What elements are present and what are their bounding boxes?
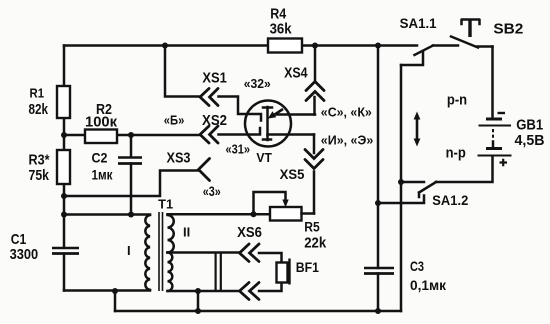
label C2: [92, 149, 114, 182]
svg-text:36k: 36k: [270, 20, 293, 37]
svg-text:XS3: XS3: [167, 151, 191, 167]
label C3: [410, 259, 446, 293]
wire winding II bottom: [168, 290, 240, 293]
connector XS1: [200, 89, 218, 106]
svg-text:R3*: R3*: [29, 152, 50, 169]
junction R5 wiper node: [251, 211, 257, 217]
junction right bus on top bus: [375, 43, 381, 49]
resistor R5: [270, 207, 302, 221]
label R5: [304, 220, 327, 252]
wire left bus: [63, 46, 66, 291]
label winding I: [127, 243, 131, 258]
svg-text:0,1мк: 0,1мк: [410, 278, 446, 293]
capacitor C2: [118, 158, 142, 164]
label 3: [203, 184, 221, 199]
svg-text:T1: T1: [158, 197, 173, 212]
label n-p: [446, 145, 466, 162]
push button SB2: [451, 20, 493, 48]
svg-text:«31»: «31»: [226, 142, 251, 157]
svg-text:XS5: XS5: [280, 167, 305, 182]
junction C3 bottom on bottom bus: [375, 308, 381, 314]
transistor VT: [245, 101, 291, 147]
label XS1: [202, 71, 227, 87]
svg-text:I: I: [127, 243, 131, 258]
svg-text:SA1.1: SA1.1: [400, 16, 437, 31]
svg-text:«3»: «3»: [203, 184, 221, 199]
svg-text:p-n: p-n: [447, 91, 467, 108]
wire base node horizontal: [64, 134, 200, 137]
capacitor C1: [52, 248, 79, 254]
battery plus sign: [500, 159, 508, 166]
wire SA1.1 to SB2: [433, 44, 458, 47]
wire bottom left horizontal: [64, 289, 150, 292]
junction XS1 branch on top bus: [162, 43, 168, 49]
wire SB2 to battery: [491, 47, 494, 119]
label SA1.1: [400, 16, 437, 31]
wire drop winding II bottom to bus: [197, 291, 200, 311]
svg-text:22k: 22k: [304, 235, 327, 252]
svg-text:82k: 82k: [29, 101, 49, 118]
connector XS3: [199, 159, 210, 181]
label BF1: [296, 260, 320, 275]
wire collector lead: [276, 113, 315, 116]
headphone BF1: [277, 259, 290, 285]
svg-text:R5: R5: [304, 220, 320, 235]
wire drop to bottom bus: [114, 291, 117, 311]
svg-text:C2: C2: [92, 149, 108, 165]
svg-text:100к: 100к: [85, 114, 117, 131]
label VT: [256, 151, 272, 165]
svg-text:SA1.2: SA1.2: [432, 193, 468, 208]
wire XS6 to BF1 top: [259, 253, 282, 263]
resistor R2: [85, 130, 117, 144]
junction R2-C2 base node: [128, 132, 134, 138]
label 32: [244, 76, 271, 91]
svg-text:BF1: BF1: [296, 260, 320, 275]
junction SA1.2 throw on right bus: [375, 200, 381, 206]
svg-text:XS2: XS2: [202, 113, 227, 129]
label GB1: [515, 118, 545, 149]
label R4: [270, 6, 293, 38]
junction bottom-left drop: [112, 288, 118, 294]
wire XS1 to transistor gate: [219, 97, 262, 121]
capacitor plates at XS6: [216, 253, 221, 292]
wire y214 bus to winding I: [64, 213, 150, 216]
junction on bottom bus at x198: [195, 308, 201, 314]
label I E: [321, 133, 374, 148]
svg-text:XS4: XS4: [284, 65, 308, 81]
label C K: [321, 105, 372, 120]
wire XS1 path: [165, 46, 200, 97]
wire winding II top to R5: [168, 213, 271, 216]
gang arrow: [414, 112, 421, 147]
svg-text:«32»: «32»: [244, 76, 271, 91]
wire R5 right to XS5: [302, 212, 315, 215]
svg-text:XS6: XS6: [237, 225, 262, 241]
svg-text:4,5В: 4,5В: [515, 133, 545, 149]
label R2: [85, 101, 117, 131]
svg-text:C1: C1: [11, 231, 26, 248]
R5 wiper: [254, 192, 289, 214]
transformer T1 winding I: [145, 215, 150, 290]
junction XS3 branch on left bus: [61, 193, 67, 199]
svg-text:«И», «Э»: «И», «Э»: [321, 133, 374, 148]
svg-text:75k: 75k: [29, 167, 50, 184]
label SA1.2: [432, 193, 468, 208]
transformer T1 winding II lower: [168, 253, 173, 292]
resistor R4: [268, 39, 302, 53]
svg-text:«Б»: «Б»: [164, 112, 185, 127]
label p-n: [447, 91, 467, 108]
wire bottom bus: [115, 310, 401, 313]
svg-text:VT: VT: [256, 151, 272, 165]
transformer T1 winding II upper: [168, 215, 174, 253]
junction winding I top on left bus: [61, 212, 67, 218]
svg-text:SB2: SB2: [493, 21, 523, 38]
svg-text:n-p: n-p: [446, 145, 466, 162]
connector XS6 lower: [240, 283, 260, 300]
svg-text:XS1: XS1: [202, 71, 227, 87]
label T1: [158, 197, 173, 212]
transformer T1 core: [159, 212, 163, 291]
svg-text:«С», «К»: «С», «К»: [321, 105, 372, 120]
wire XS2 to transistor: [219, 128, 261, 135]
label R1: [29, 86, 49, 118]
junction C2 bottom node: [128, 212, 134, 218]
battery GB1: [478, 119, 512, 156]
capacitor C3: [364, 268, 394, 274]
battery minus sign: [498, 112, 506, 114]
label XS6: [237, 225, 262, 241]
connector XS6 upper: [240, 244, 260, 262]
label XS3: [167, 151, 191, 167]
label XS2: [202, 113, 227, 129]
svg-text:R1: R1: [30, 86, 45, 101]
label R3: [29, 152, 50, 185]
junction SA1.2 pole on x401 bus: [398, 179, 404, 185]
label 31: [226, 142, 251, 157]
junction XS4 branch on top bus: [312, 43, 318, 49]
svg-text:3300: 3300: [10, 247, 38, 263]
svg-text:1мк: 1мк: [92, 166, 114, 182]
svg-text:II: II: [183, 225, 190, 240]
label XS4: [284, 65, 308, 81]
resistor R1: [57, 86, 70, 118]
wire winding II tap: [168, 251, 240, 254]
switch SA1.2: [378, 182, 436, 203]
wire BF1 bottom loop: [259, 283, 282, 292]
resistor R3: [57, 150, 70, 184]
wire battery to SA1.2: [436, 157, 493, 183]
connector XS4: [306, 46, 324, 115]
wire C2 branch: [130, 135, 133, 215]
label SB2: [493, 21, 523, 38]
wire right bus x378: [377, 46, 380, 312]
label C1: [10, 231, 38, 263]
svg-text:GB1: GB1: [516, 118, 543, 134]
wire emitter lead: [268, 133, 315, 136]
wire right bus x401: [400, 65, 403, 311]
label winding II: [183, 225, 190, 240]
wire top bus: [64, 44, 417, 47]
switch SA1.1: [401, 46, 433, 66]
connector XS2: [200, 126, 218, 143]
wire XS3 path: [64, 171, 199, 197]
junction R1-R2-R3 node: [61, 132, 67, 138]
label B: [164, 112, 185, 127]
junction winding II bottom: [195, 288, 201, 294]
svg-text:C3: C3: [410, 259, 424, 274]
connector XS5: [305, 135, 323, 214]
label XS5: [280, 167, 305, 182]
